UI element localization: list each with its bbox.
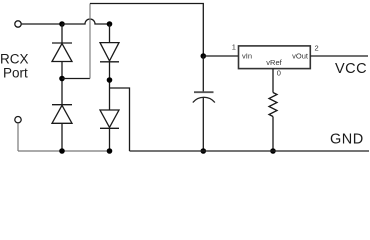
svg-text:RCX: RCX xyxy=(0,52,29,67)
wire riser (vertical, crosses under hop) xyxy=(89,4,91,79)
wire left column top segment xyxy=(61,24,63,43)
top rail wire xyxy=(90,4,203,57)
wire capacitor to ground rail xyxy=(202,98,204,152)
ground rail left segment xyxy=(18,150,112,152)
svg-text:vIn: vIn xyxy=(242,52,252,61)
wire right column bottom segment xyxy=(109,128,111,151)
terminal T1 (RCX port top pin) xyxy=(15,21,21,27)
terminal T2 (RCX port bottom pin) xyxy=(15,117,21,123)
wire node E down to capacitor xyxy=(202,56,204,92)
wire T1 to node A xyxy=(21,23,62,25)
svg-text:GND: GND xyxy=(330,132,364,148)
node B junction dot xyxy=(107,21,113,27)
node C junction dot (left mid) xyxy=(59,76,65,82)
wire node E to regulator pin 1 xyxy=(203,55,238,57)
diode D1 (left top, cathode up) xyxy=(52,43,72,62)
regulator U1 box xyxy=(239,46,311,69)
wire node D to bottom-right rail xyxy=(110,88,130,151)
svg-text:Port: Port xyxy=(3,66,28,81)
wire right column top segment xyxy=(109,24,111,43)
node E junction dot (vIn node) xyxy=(201,53,207,59)
wire regulator pin 2 to VCC xyxy=(310,55,368,57)
node A junction dot xyxy=(59,21,65,27)
diode D2 (left bottom, cathode up) xyxy=(52,105,72,124)
node G junction dot (resistor to gnd) xyxy=(270,148,276,154)
diode D3 (right top, cathode down) xyxy=(100,43,119,62)
svg-text:VCC: VCC xyxy=(335,61,367,77)
svg-text:0: 0 xyxy=(277,69,281,78)
node I junction dot (right column to rail) xyxy=(107,148,113,154)
node H junction dot (left column to rail) xyxy=(59,148,65,154)
wire right column middle segment xyxy=(109,62,111,110)
wire node C to riser xyxy=(62,78,90,80)
wire resistor to ground rail xyxy=(272,117,274,152)
diode D4 (right bottom, cathode down) xyxy=(100,110,119,128)
capacitor C1 (polarized) xyxy=(193,92,215,102)
svg-text:vOut: vOut xyxy=(292,52,309,61)
node F junction dot (cap to gnd) xyxy=(201,148,207,154)
ground rail right segment xyxy=(130,150,370,152)
wire T2 down to left rail xyxy=(17,123,19,151)
svg-text:2: 2 xyxy=(315,44,319,53)
wire left column middle segment xyxy=(61,62,63,105)
resistor R1 zigzag xyxy=(269,93,277,117)
svg-text:1: 1 xyxy=(232,43,236,52)
node D junction dot (right mid) xyxy=(107,77,113,83)
svg-text:vRef: vRef xyxy=(266,58,282,67)
wire node A to node B with hop over riser xyxy=(62,19,110,24)
wire regulator pin 0 down to resistor xyxy=(272,69,274,93)
wire left column bottom segment xyxy=(61,123,63,151)
